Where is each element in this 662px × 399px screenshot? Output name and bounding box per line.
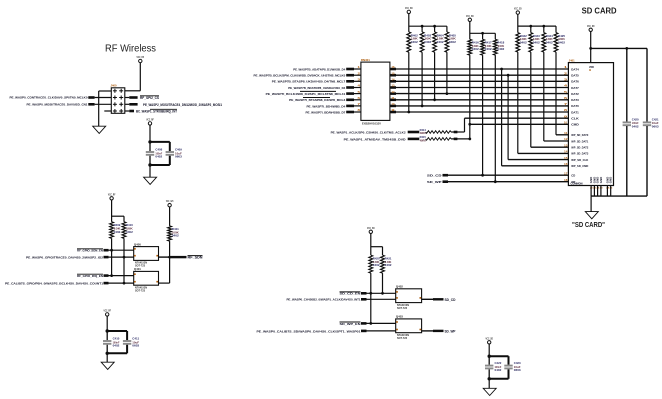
svg-text:J400: J400 xyxy=(111,84,117,88)
svg-text:BC_WASP1_STROBE/IRQ_INT: BC_WASP1_STROBE/IRQ_INT xyxy=(136,110,177,114)
svg-text:PE_WASP0_CONTRACE0_CLK/DAV0_SP: PE_WASP0_CONTRACE0_CLK/DAV0_SPI/TN0_MCLK… xyxy=(10,96,88,100)
svg-text:PE_WASP0_GPIO/TRACE0_DAV4S0_2/: PE_WASP0_GPIO/TRACE0_DAV4S0_2/WASP2_IO2 xyxy=(26,256,103,260)
svg-text:0603: 0603 xyxy=(132,344,139,348)
svg-text:SD_CD: SD_CD xyxy=(427,174,443,178)
svg-text:PE_WASP7I_BD4/W8B_D4: PE_WASP7I_BD4/W8B_D4 xyxy=(307,104,346,108)
svg-text:"SD CARD": "SD CARD" xyxy=(572,222,605,229)
svg-text:PE_WASP1_ACLK/SP0_CSN4S0_CLK/T: PE_WASP1_ACLK/SP0_CSN4S0_CLK/TMS_ACLK2 xyxy=(331,130,406,134)
svg-text:DAT2: DAT2 xyxy=(571,92,579,96)
svg-text:VCC_SD: VCC_SD xyxy=(587,24,595,28)
svg-text:WP_SD_DAT3: WP_SD_DAT3 xyxy=(571,152,589,156)
svg-text:WP_SD_DAT0: WP_SD_DAT0 xyxy=(571,133,589,137)
svg-text:VCC_SD: VCC_SD xyxy=(405,6,413,10)
svg-text:PE_CALIB7S_GPIO/PB4_0/WASP2_BC: PE_CALIB7S_GPIO/PB4_0/WASP2_BCLK4S0_DAV4… xyxy=(5,282,103,286)
svg-text:GND: GND xyxy=(600,176,603,183)
svg-text:C420: C420 xyxy=(632,118,639,122)
svg-text:WP_SD_CMD: WP_SD_CMD xyxy=(571,164,588,168)
svg-text:10uF: 10uF xyxy=(652,121,659,125)
svg-text:WP_SD_CLK: WP_SD_CLK xyxy=(571,158,588,162)
svg-text:VCC_RF: VCC_RF xyxy=(108,192,116,196)
svg-text:PE_WASP7B_ADAT4/P8_D1/WASB_D4: PE_WASP7B_ADAT4/P8_D1/WASB_D4 xyxy=(293,67,345,71)
svg-text:SD_WP: SD_WP xyxy=(445,329,457,333)
svg-text:VCC_SD: VCC_SD xyxy=(485,336,493,340)
svg-text:PE_WASP7I_BCLK4S88_D4/SP1_MCL8: PE_WASP7I_BCLK4S88_D4/SP1_MCL8TN8_MCL41 xyxy=(266,92,346,96)
svg-text:0603: 0603 xyxy=(514,368,521,372)
svg-text:SD CARD: SD CARD xyxy=(582,5,617,15)
svg-text:0402: 0402 xyxy=(546,40,554,44)
svg-text:C422: C422 xyxy=(495,361,502,365)
svg-text:CD: CD xyxy=(571,174,575,178)
svg-text:0402: 0402 xyxy=(172,234,180,238)
svg-text:0402: 0402 xyxy=(632,125,639,129)
svg-text:SOT-723: SOT-723 xyxy=(135,289,146,292)
svg-text:VCC_SD: VCC_SD xyxy=(367,226,375,230)
svg-text:DAT6: DAT6 xyxy=(571,80,579,84)
svg-text:PE_WASP0_MOSI/TRACE0_DAV0/SD_C: PE_WASP0_MOSI/TRACE0_DAV0/SD_CN1 xyxy=(27,103,88,107)
svg-text:PE_WASP7B_BTASP8_UKDAV4S0_D4/T: PE_WASP7B_BTASP8_UKDAV4S0_D4/TN8_MCL7 xyxy=(272,80,346,84)
svg-text:DAT0: DAT0 xyxy=(571,104,579,108)
svg-text:0402: 0402 xyxy=(385,263,392,267)
svg-text:SD_CD: SD_CD xyxy=(445,298,457,302)
svg-text:VCC_RF: VCC_RF xyxy=(137,55,145,59)
svg-text:0402: 0402 xyxy=(558,40,566,44)
svg-text:0402: 0402 xyxy=(533,40,541,44)
svg-text:GND: GND xyxy=(610,176,613,183)
svg-text:RF_SPI2_CS: RF_SPI2_CS xyxy=(140,96,159,100)
svg-text:CMD: CMD xyxy=(571,123,579,127)
svg-text:49R9: 49R9 xyxy=(420,139,427,142)
svg-text:C409: C409 xyxy=(175,147,182,151)
svg-text:CLK: CLK xyxy=(571,117,579,121)
svg-text:100nF: 100nF xyxy=(632,121,639,125)
svg-text:0402: 0402 xyxy=(472,47,480,51)
svg-text:0402: 0402 xyxy=(497,47,505,51)
svg-text:SOT-723: SOT-723 xyxy=(397,337,408,340)
svg-text:0402: 0402 xyxy=(520,40,528,44)
svg-text:RF_SDN: RF_SDN xyxy=(188,256,204,260)
svg-text:PE_WASP0_CH4S0B2_0/WASP1_ACLK/: PE_WASP0_CH4S0B2_0/WASP1_ACLK/DAV4S0_INT… xyxy=(287,298,361,302)
svg-text:C408: C408 xyxy=(155,147,162,151)
svg-text:Q403: Q403 xyxy=(396,315,404,319)
svg-text:0402: 0402 xyxy=(155,155,162,159)
svg-text:EXB2HV103JV: EXB2HV103JV xyxy=(362,122,381,126)
svg-text:DAT5: DAT5 xyxy=(571,74,579,78)
svg-text:WP_SD_DAT2: WP_SD_DAT2 xyxy=(571,146,589,150)
svg-text:C411: C411 xyxy=(132,336,139,340)
svg-text:Q402: Q402 xyxy=(396,285,404,289)
svg-text:0603: 0603 xyxy=(175,155,182,159)
svg-text:DAT7: DAT7 xyxy=(571,86,579,90)
svg-text:C410: C410 xyxy=(113,336,120,340)
svg-text:VCC_SD: VCC_SD xyxy=(466,14,474,18)
svg-text:PE_WASP7I_BTASP88_D4/SP8_MCL3: PE_WASP7I_BTASP88_D4/SP8_MCL3 xyxy=(289,98,345,102)
svg-text:0402: 0402 xyxy=(114,230,121,234)
svg-text:0402: 0402 xyxy=(113,344,120,348)
svg-text:VCC_RF: VCC_RF xyxy=(146,117,154,121)
svg-text:COMMON: COMMON xyxy=(571,182,583,186)
svg-text:SOT-723: SOT-723 xyxy=(397,307,408,310)
svg-text:SD_WP: SD_WP xyxy=(427,180,442,184)
svg-text:49R9: 49R9 xyxy=(420,132,427,135)
svg-text:DAT3: DAT3 xyxy=(571,98,579,102)
svg-text:VCC_3V3: VCC_3V3 xyxy=(166,199,174,203)
svg-text:C423: C423 xyxy=(514,361,521,365)
svg-text:WP_SD_DAT1: WP_SD_DAT1 xyxy=(571,139,589,143)
svg-text:SOT-723: SOT-723 xyxy=(135,265,146,268)
svg-text:0402: 0402 xyxy=(495,368,502,372)
svg-text:DAT1: DAT1 xyxy=(571,110,579,114)
svg-text:RF Wireless: RF Wireless xyxy=(105,44,156,55)
svg-text:PE_WASP1_ATM/DAV_TMS4SB_DVD: PE_WASP1_ATM/DAV_TMS4SB_DVD xyxy=(344,137,407,141)
svg-text:PE_WASP7B_BDAT8/P8_UHSDAV4S0_D: PE_WASP7B_BDAT8/P8_UHSDAV4S0_D4 xyxy=(288,86,345,90)
svg-text:0402: 0402 xyxy=(411,40,419,44)
svg-text:Q401: Q401 xyxy=(134,267,142,271)
svg-text:0402: 0402 xyxy=(449,40,457,44)
svg-text:C421: C421 xyxy=(652,118,659,122)
svg-text:0402: 0402 xyxy=(373,263,380,267)
svg-text:RN401: RN401 xyxy=(361,58,370,62)
svg-text:DAT4: DAT4 xyxy=(571,67,579,71)
svg-text:VCC_RF: VCC_RF xyxy=(103,308,111,312)
svg-text:0402: 0402 xyxy=(485,47,493,51)
svg-text:PE_WASP2_MOSI/TRACE4_DM12MOSI_: PE_WASP2_MOSI/TRACE4_DM12MOSI_2/WASP2_MO… xyxy=(143,103,222,107)
svg-text:J401: J401 xyxy=(569,58,575,62)
svg-text:0402: 0402 xyxy=(126,230,133,234)
svg-text:PE_WASP7I_BD/W4S8B_D7: PE_WASP7I_BD/W4S8B_D7 xyxy=(306,111,346,115)
svg-text:Q400: Q400 xyxy=(134,242,142,246)
svg-text:PE_WASP7B_BCLK/SPM_CLK0/WSB_DV: PE_WASP7B_BCLK/SPM_CLK0/WSB_DVB4CK_UHSTN… xyxy=(254,74,346,78)
svg-text:0603: 0603 xyxy=(652,125,659,129)
svg-text:VCC_SD: VCC_SD xyxy=(514,7,522,11)
svg-text:PE_WASP0_CALIB7S_SD/WASP0_DAV4: PE_WASP0_CALIB7S_SD/WASP0_DAV4S0_CLK/SPT… xyxy=(257,329,361,333)
svg-text:0402: 0402 xyxy=(424,40,432,44)
svg-text:0402: 0402 xyxy=(437,40,445,44)
